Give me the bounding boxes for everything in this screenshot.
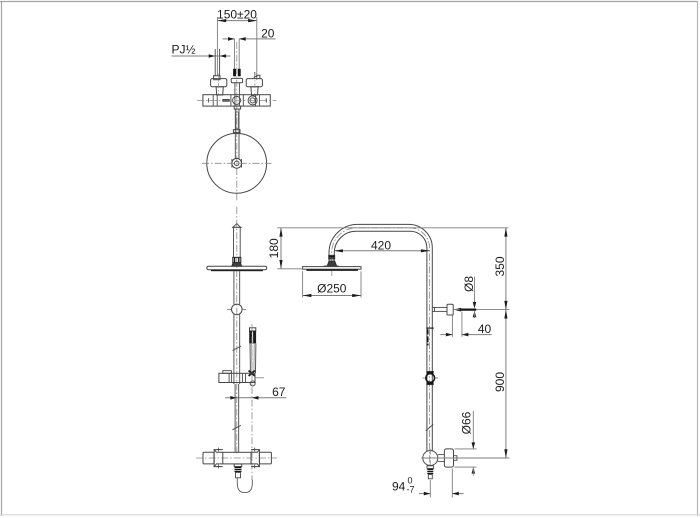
Ø66 dimension line with outside arrows [472,411,474,449]
shower head plate (front) [207,266,267,269]
extension from tab to 900 line [421,457,509,459]
gooseneck outer wall [329,224,432,451]
pipe below head (front) [234,271,240,304]
side head connector nut [329,255,335,258]
hand shower handle [250,343,256,373]
frame top border [0,1,698,3]
svg-text:350: 350 [493,256,507,276]
right handle stem [251,87,258,95]
dimension 20 extension lines [235,39,240,69]
valve right cap (front) [259,452,271,464]
body section lines [213,95,259,106]
left inlet pipe (plan) [215,49,219,76]
head hub circle [232,158,242,168]
extension line top (180/350 shared) [277,227,508,229]
hand shower head (dark) [249,331,256,344]
dimension Ø8 text (rotated) [462,276,476,292]
frame left border [1,1,3,516]
front view vertical centerline [236,207,238,455]
svg-text:420: 420 [371,238,391,252]
wall flange (side) [444,449,453,467]
dimension 40 text [478,322,492,336]
svg-text:94: 94 [392,480,406,494]
body dark slot [222,99,229,101]
dimension 150±20 line with arrows [217,20,257,22]
slider holder bar (front) [219,373,255,382]
dimension 180 text (rotated) [267,238,281,258]
Ø250 extension lines [303,271,361,297]
dimension 900 text (rotated) [493,372,507,392]
pipe inner slot detail [236,112,238,129]
pin extension line [454,309,510,311]
head circle horizontal centerline [202,162,272,164]
left cap tick [208,98,210,102]
hand shower cap [250,328,256,331]
dimension 350 text (rotated) [493,256,507,276]
outlet nipple below valve circle [427,466,434,469]
fitting below body (plan) [234,106,240,109]
flange tab [454,456,457,461]
holder pivot ball (front) [232,304,243,315]
dimension 420 line [334,250,430,252]
holder block (side) [447,304,453,315]
left handle stem [216,87,223,95]
dimension 67 line [225,397,286,399]
shower head circle (plan) [207,133,267,193]
40 extension lines [452,312,462,337]
dimension 420 text [371,238,391,252]
valve body circle (side) [423,451,438,466]
extension line bottom of 180 [277,268,302,270]
valve left cap (front) [203,452,214,464]
dimension 150 extension lines [217,17,256,80]
frame right border [697,1,699,516]
body right screw circle [248,96,257,105]
riser union ball joint [426,371,433,374]
body centre hub circle [233,96,241,104]
dimension Ø66 text (rotated) [459,411,473,434]
plan centerline vertical [236,42,238,201]
dimension 180 vertical line [280,228,282,269]
side head connector dome [329,259,334,261]
svg-text:40: 40 [478,322,492,336]
dimension 150±20 text [217,8,257,22]
right handle (plan) [246,79,262,87]
dimension 20 line with outside arrows [223,38,276,40]
pipe below ball (front) [234,315,240,385]
pipe tip (gooseneck end-on) [233,224,241,228]
label PJ1/2 [172,43,196,57]
40 dimension line with outside arrows [440,334,492,336]
hose loop [237,478,252,493]
svg-text:PJ½: PJ½ [172,43,196,57]
right handle tab (plan) [254,75,260,79]
left handle centerline [217,74,219,96]
riser slide slot (bold dashes) [427,329,429,345]
valve body (front) [223,452,251,464]
Ø66 extension lines [455,449,477,467]
holder side tick line [255,377,264,379]
connector to flange [438,455,445,462]
Ø8 leader vertical line [474,277,476,304]
svg-text:180: 180 [267,238,281,258]
gooseneck centerline [332,228,430,467]
svg-text:Ø8: Ø8 [462,276,476,292]
right inlet line (plan) [254,72,256,76]
supply stub right (dark) [238,69,241,77]
valve left bell [214,450,223,467]
connector dome (front) [232,263,242,267]
svg-text:-7: -7 [407,485,415,495]
svg-text:Ø250: Ø250 [317,281,347,295]
dimension 67 text [272,385,286,399]
shower head plate (side) [303,267,361,270]
right cap tick [265,98,267,102]
94 extension lines [430,469,452,498]
holder arm cylinder (side) [432,307,447,311]
connector nut (front) [233,257,241,262]
dimension 94 text with tolerance [392,476,415,495]
short centerline below plate [331,271,333,277]
valve horizontal centerline (front) [196,457,277,459]
riser sleeve seam [426,327,433,329]
holder top-left tab [223,371,232,374]
lower pipe break mark [233,425,242,429]
body horizontal centerline [197,99,277,101]
valve body bar (plan) [203,95,270,106]
down pipe to shower head (plan) [235,109,239,159]
holder pin leader arrow [454,308,461,312]
outlet ribs (dark) [235,467,242,472]
dimension Ø250 text [317,281,347,295]
valve circle cross [429,449,431,468]
head hub nut [232,159,242,168]
valve right bell [251,450,259,467]
pipe collar at circle edge [233,130,240,133]
centre escutcheon (plan) [231,78,242,82]
svg-text:150±20: 150±20 [217,8,257,22]
left handle tab (plan) [214,76,220,80]
hand shower centerline [251,324,253,480]
centre pipe (plan) [235,83,240,107]
dimension 900 line [505,310,507,458]
left handle (plan) [211,79,227,87]
svg-text:900: 900 [493,372,507,392]
head plate lower shadow (side) [306,269,358,271]
svg-text:67: 67 [272,385,286,399]
handle centre cross marks [217,448,257,469]
pipe into valve (front) [235,384,239,452]
svg-text:Ø66: Ø66 [459,411,473,434]
dimension 20 text [261,27,275,41]
frame bottom border [0,514,700,516]
right handle centerline [254,74,256,96]
outlet tube [236,472,241,477]
hand shower clip (dark X) [249,371,255,376]
dimension 350 line [505,228,507,310]
head plate lower shadow [211,270,263,272]
PJ1/2 leader line with arrows [172,55,231,57]
94 dimension line with outside arrows [419,493,464,495]
pipe break mark [233,346,242,351]
riser break mark [426,424,433,430]
vertical pipe above head (front) [234,227,241,257]
gooseneck inner wall [334,231,427,451]
Ø250 dimension line [303,295,361,297]
pin bold segment [460,309,476,311]
supply stub left (dark) [233,69,236,77]
hose nut knob below holder [250,381,255,386]
outlet nut (front) [234,464,242,467]
